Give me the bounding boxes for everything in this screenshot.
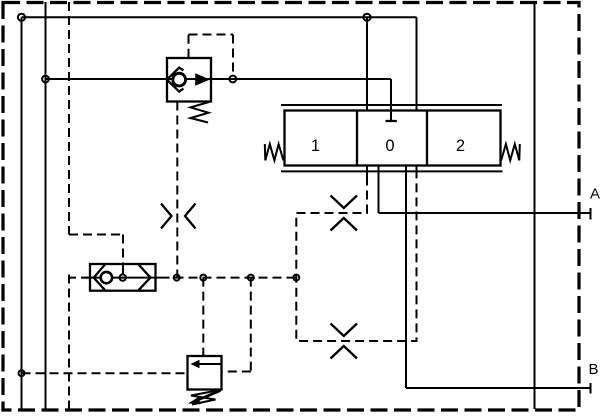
svg-text:0: 0 xyxy=(385,137,394,155)
svg-text:1: 1 xyxy=(311,137,320,155)
svg-text:2: 2 xyxy=(456,137,465,155)
svg-text:B: B xyxy=(588,361,598,378)
svg-text:A: A xyxy=(590,186,600,203)
